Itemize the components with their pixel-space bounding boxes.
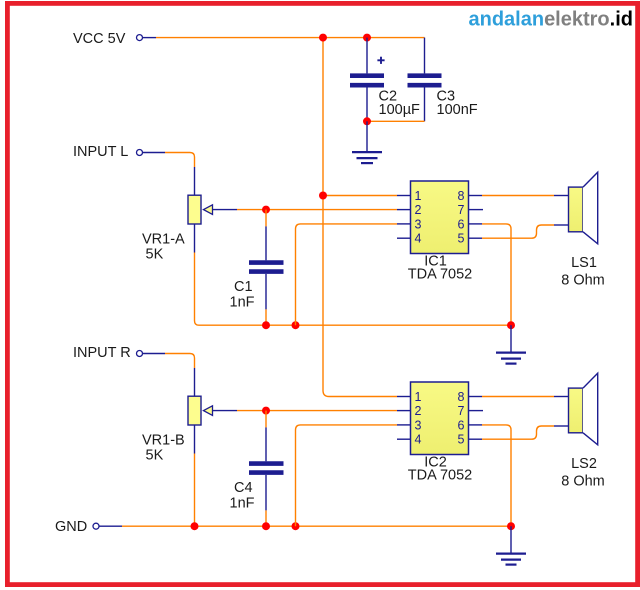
speaker LS1 (561, 172, 605, 288)
svg-text:C4: C4 (234, 480, 253, 496)
wire INPUT R lead (143, 353, 166, 355)
wire IC1 pin8 stub (469, 195, 483, 197)
svg-text:VCC 5V: VCC 5V (73, 31, 126, 47)
wire INPUT L lead (143, 152, 166, 154)
op-amp IC1 TDA7052 (408, 181, 473, 283)
svg-text:6: 6 (458, 418, 465, 432)
wire IC1 pin2 stub (397, 209, 411, 211)
junction wiper / C1 (262, 206, 270, 214)
junction pin6 / GND rail (507, 522, 515, 530)
svg-text:8: 8 (458, 189, 465, 203)
wire IC1 pin1 stub (397, 195, 411, 197)
wire top ground rail (199, 324, 511, 326)
wire IC1 pin3 stub (397, 223, 411, 225)
svg-text:4: 4 (415, 232, 422, 246)
svg-text:8 Ohm: 8 Ohm (561, 473, 605, 489)
wire IC2 pin6 down to ground (482, 425, 511, 526)
wire VR1-B bottom to GND rail (194, 425, 196, 454)
wire IC2 pin3 stub (397, 424, 411, 426)
junction C4 / rail (262, 522, 270, 530)
svg-text:8 Ohm: 8 Ohm (561, 272, 605, 288)
svg-text:5: 5 (458, 232, 465, 246)
terminal INPUT L (137, 150, 143, 156)
wire VCC terminal lead (143, 37, 157, 39)
wire IC1 pin6 stub (469, 223, 483, 225)
terminal GND (93, 523, 99, 529)
svg-text:VR1-A: VR1-A (142, 231, 185, 247)
potentiometer VR1-B (142, 396, 237, 463)
wire VCC vertical feed (323, 38, 397, 397)
capacitor C1 (230, 210, 284, 326)
wire IC2 pin5 stub (469, 438, 483, 440)
wire IC2 pin4 stub (397, 438, 411, 440)
capacitor C4 (230, 411, 284, 527)
junction VCC rail / C2 (363, 34, 371, 42)
svg-text:2: 2 (415, 404, 422, 418)
junction pin3 line / rail (292, 321, 300, 329)
svg-text:1: 1 (415, 390, 422, 404)
svg-text:5K: 5K (146, 246, 164, 262)
capacitor C2 (350, 38, 420, 122)
junction VCC rail / vertical (319, 34, 327, 42)
junction C2 bottom (363, 117, 371, 125)
svg-text:VR1-B: VR1-B (142, 432, 185, 448)
svg-text:100µF: 100µF (379, 102, 421, 118)
svg-text:2: 2 (415, 203, 422, 217)
junction pin3 line / rail (292, 522, 300, 530)
svg-text:8: 8 (458, 390, 465, 404)
wire IC2 pin5 to LS2 with jog (482, 426, 554, 439)
ground under IC1 (496, 325, 526, 363)
svg-text:LS2: LS2 (571, 456, 597, 472)
svg-text:5K: 5K (146, 447, 164, 463)
terminal VCC (137, 35, 143, 41)
wire IC2 pin7 stub NC (469, 410, 484, 412)
junction wiper / C4 (262, 407, 270, 415)
capacitor C3 (408, 38, 478, 122)
wire INPUT R to VR1-B (165, 354, 195, 369)
ground under C2 (352, 121, 382, 163)
wire LS2 top lead (554, 396, 569, 398)
wire IC1 pin3 to rail (296, 224, 398, 325)
wire IC2 pin6 stub (469, 424, 483, 426)
wire IC1 pin4 stub (397, 237, 411, 239)
speaker LS2 (561, 373, 605, 489)
junction VCC vertical / IC1 pin1 (319, 192, 327, 200)
wire INPUT L to VR1-A (165, 153, 195, 168)
svg-text:GND: GND (55, 519, 87, 535)
svg-text:1: 1 (415, 189, 422, 203)
junction C1 / rail (262, 321, 270, 329)
svg-text:6: 6 (458, 217, 465, 231)
wire LS1 bottom lead (554, 224, 569, 226)
svg-text:TDA 7052: TDA 7052 (408, 267, 473, 283)
ground under IC2 (496, 526, 526, 564)
wire GND lead (99, 525, 122, 527)
junction pin6 / rail ground (507, 321, 515, 329)
wire IC1 pin5 stub (469, 237, 483, 239)
svg-text:4: 4 (415, 433, 422, 447)
svg-text:INPUT L: INPUT L (73, 144, 128, 160)
wire LS1 top lead (554, 195, 569, 197)
svg-text:andalanelektro.id: andalanelektro.id (468, 9, 633, 31)
wire IC2 pin2 stub (397, 410, 411, 412)
wire VR1-B wiper to IC2 pin2 (237, 410, 397, 412)
wire VR1-A wiper to IC1 pin2 (237, 209, 397, 211)
svg-text:7: 7 (458, 404, 465, 418)
wire IC2 pin8 to LS2 (482, 396, 554, 398)
wire IC1 pin7 stub NC (469, 209, 484, 211)
wire C3 bottom to C2 bottom (367, 120, 425, 122)
wire IC1 pin1 branch (323, 195, 397, 197)
svg-text:C1: C1 (234, 279, 253, 295)
wire VR1-B top lead (194, 368, 196, 396)
wire IC1 pin8 to LS1 (482, 195, 554, 197)
wire IC1 pin6 down to ground (482, 224, 511, 325)
wire VCC top rail (156, 37, 425, 39)
wire VR1-A top lead (194, 167, 196, 195)
svg-text:3: 3 (415, 217, 422, 231)
potentiometer VR1-A (142, 195, 237, 262)
svg-text:INPUT R: INPUT R (73, 345, 131, 361)
svg-text:100nF: 100nF (437, 102, 478, 118)
svg-text:LS1: LS1 (571, 255, 597, 271)
terminal INPUT R (137, 351, 143, 357)
wire VR1-A bottom to ground rail (194, 224, 196, 253)
wire IC1 pin5 to LS1 with jog (482, 225, 554, 238)
junction VR1-B / rail (191, 522, 199, 530)
wire bottom GND rail (122, 525, 511, 527)
svg-text:1nF: 1nF (230, 295, 255, 311)
wire IC2 pin8 stub (469, 396, 483, 398)
wire IC2 pin3 to rail (296, 425, 398, 526)
wire IC2 pin1 stub (397, 396, 411, 398)
svg-text:3: 3 (415, 418, 422, 432)
svg-text:7: 7 (458, 203, 465, 217)
wire LS2 bottom lead (554, 425, 569, 427)
svg-text:1nF: 1nF (230, 496, 255, 512)
op-amp IC2 TDA7052 (408, 382, 473, 484)
svg-text:5: 5 (458, 433, 465, 447)
svg-text:TDA 7052: TDA 7052 (408, 468, 473, 484)
